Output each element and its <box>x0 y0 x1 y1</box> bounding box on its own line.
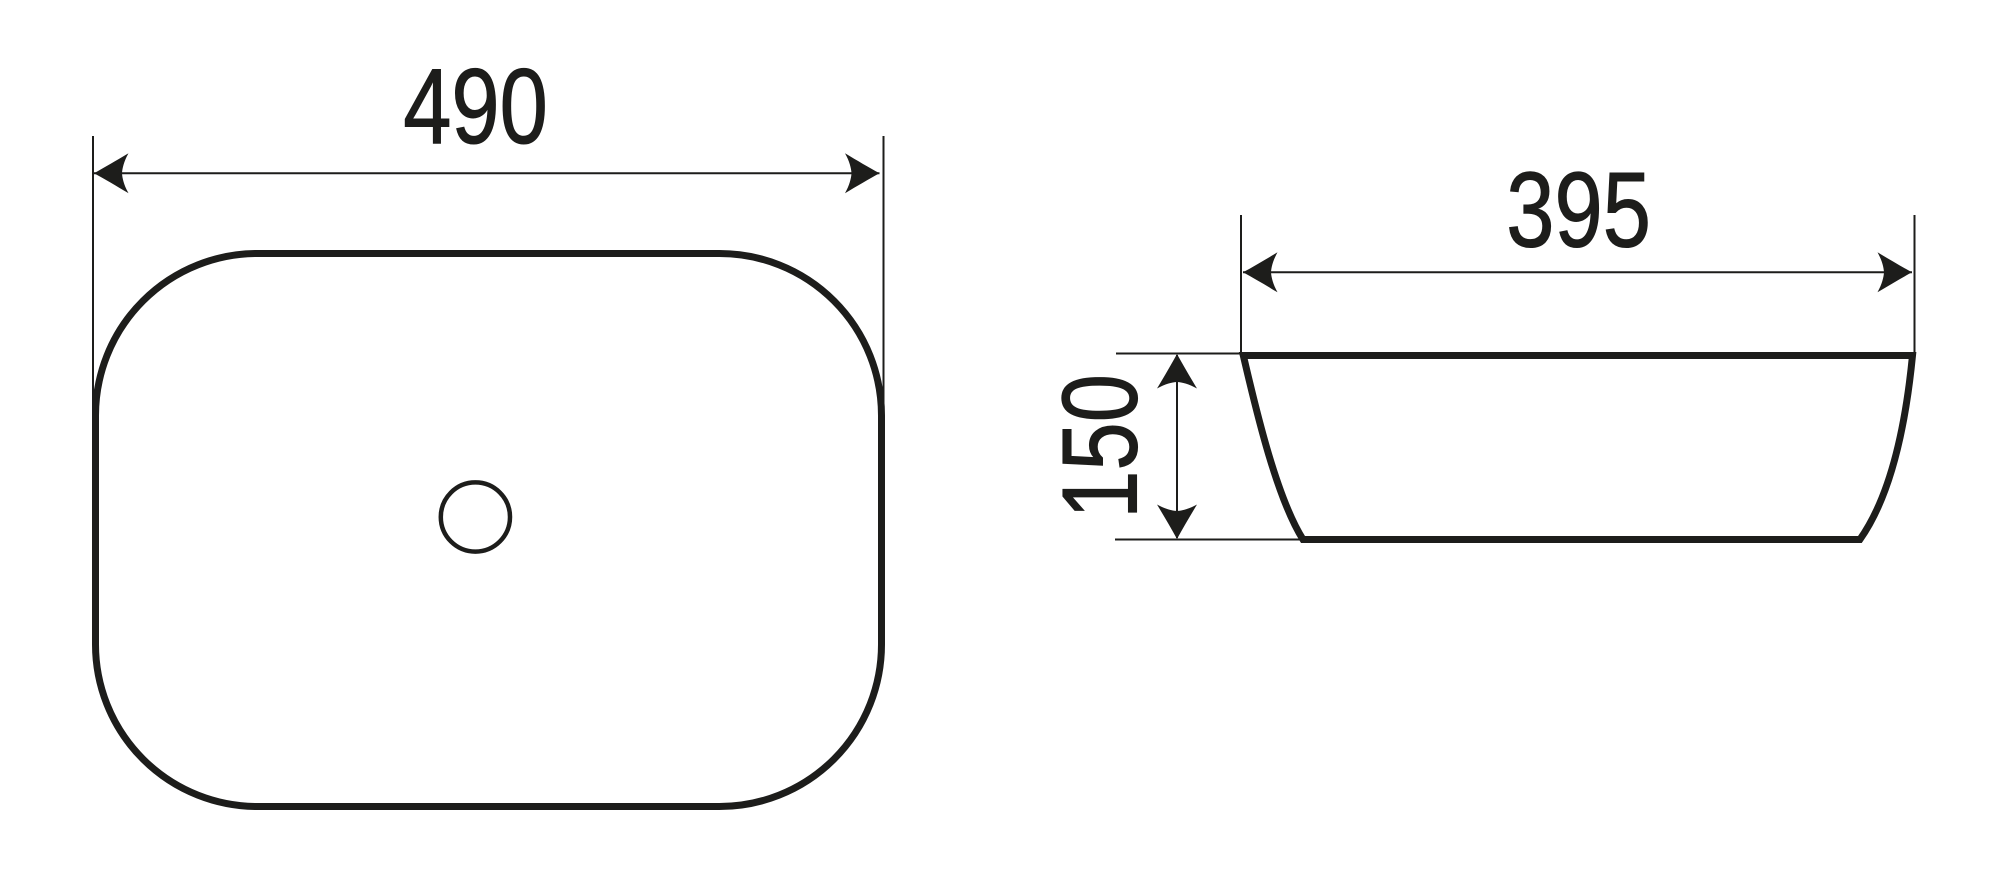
svg-text:150: 150 <box>1040 374 1160 519</box>
svg-text:490: 490 <box>403 46 548 166</box>
svg-text:395: 395 <box>1506 150 1651 270</box>
